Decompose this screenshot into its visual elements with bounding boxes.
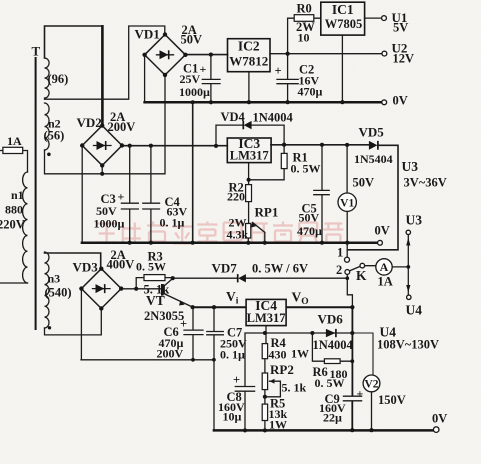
svg-text:(96): (96): [48, 72, 69, 86]
svg-text:+: +: [180, 317, 187, 331]
svg-text:VD3: VD3: [73, 260, 99, 275]
svg-text:10µ: 10µ: [223, 410, 242, 424]
svg-text:VT: VT: [146, 293, 165, 308]
svg-text:50V: 50V: [353, 176, 375, 190]
svg-text:VD4: VD4: [221, 110, 246, 124]
svg-text:A: A: [380, 260, 389, 274]
svg-text:25V: 25V: [180, 72, 201, 86]
svg-text:0V: 0V: [432, 412, 447, 426]
svg-text:n1: n1: [11, 188, 24, 202]
svg-text:+: +: [233, 373, 240, 387]
svg-text:5. 1k: 5. 1k: [282, 381, 307, 395]
svg-text:+: +: [118, 190, 125, 204]
svg-text:V1: V1: [340, 198, 354, 210]
svg-text:U3: U3: [406, 213, 423, 228]
svg-text:IC1: IC1: [332, 2, 354, 17]
svg-text:10: 10: [298, 31, 310, 45]
svg-text:4.3k: 4.3k: [227, 228, 249, 242]
svg-text:W7812: W7812: [229, 54, 268, 69]
svg-text:200V: 200V: [108, 120, 136, 134]
svg-text:220V: 220V: [0, 218, 25, 232]
svg-text:1N4004: 1N4004: [313, 338, 354, 352]
svg-text:0. 5W / 6V: 0. 5W / 6V: [252, 262, 308, 276]
svg-text:108V~130V: 108V~130V: [377, 338, 439, 352]
svg-text:n3: n3: [48, 272, 61, 286]
svg-text:0. 1µ: 0. 1µ: [220, 348, 245, 362]
svg-text:1N5404: 1N5404: [354, 152, 393, 166]
svg-text:VD5: VD5: [359, 125, 385, 140]
svg-text:1W: 1W: [269, 418, 287, 432]
svg-text:U3: U3: [402, 159, 419, 174]
svg-text:0. 5W: 0. 5W: [315, 376, 345, 390]
svg-text:(56): (56): [44, 129, 65, 143]
svg-text:0. 1µ: 0. 1µ: [160, 216, 185, 230]
svg-text:+: +: [200, 62, 207, 76]
svg-text:430: 430: [269, 348, 287, 362]
svg-text:K: K: [356, 268, 367, 283]
svg-text:2: 2: [336, 263, 342, 277]
svg-text:200V: 200V: [157, 347, 184, 361]
svg-text:VD1: VD1: [135, 27, 160, 42]
svg-text:470µ: 470µ: [297, 224, 322, 238]
svg-text:0. 5W: 0. 5W: [136, 260, 166, 274]
svg-text:1A: 1A: [378, 275, 393, 289]
svg-text:0. 5W: 0. 5W: [291, 162, 321, 176]
svg-text:12V: 12V: [393, 52, 415, 66]
svg-text:R0: R0: [297, 2, 312, 16]
svg-text:150V: 150V: [378, 393, 406, 407]
svg-text:1: 1: [337, 246, 343, 260]
svg-text:+: +: [275, 64, 282, 78]
svg-text:470µ: 470µ: [298, 85, 323, 99]
svg-text:880: 880: [5, 203, 23, 217]
svg-text:2N3055: 2N3055: [144, 309, 184, 323]
svg-text:(540): (540): [45, 286, 72, 300]
svg-text:RP1: RP1: [255, 205, 279, 220]
svg-text:1A: 1A: [7, 134, 22, 148]
svg-text:1000µ: 1000µ: [94, 217, 125, 231]
svg-text:400V: 400V: [107, 258, 135, 272]
svg-text:LM317: LM317: [247, 311, 286, 325]
svg-text:+: +: [357, 387, 364, 401]
svg-text:1W: 1W: [291, 347, 309, 361]
svg-text:50V: 50V: [299, 211, 320, 225]
svg-text:T: T: [32, 44, 41, 59]
svg-text:3V~36V: 3V~36V: [404, 176, 447, 190]
svg-text:RP2: RP2: [270, 362, 294, 377]
svg-text:5V: 5V: [393, 21, 408, 35]
svg-text:0V: 0V: [393, 94, 408, 108]
svg-text:VD7: VD7: [212, 261, 238, 276]
svg-text:22µ: 22µ: [323, 411, 342, 425]
svg-text:U4: U4: [406, 303, 423, 318]
svg-text:V2: V2: [364, 379, 378, 391]
svg-text:220: 220: [227, 190, 245, 204]
svg-text:VD2: VD2: [77, 115, 102, 130]
svg-text:0V: 0V: [375, 224, 390, 238]
svg-text:VD6: VD6: [318, 312, 344, 327]
svg-text:1000µ: 1000µ: [179, 85, 210, 99]
svg-text:W7805: W7805: [325, 17, 363, 31]
svg-text:IC2: IC2: [238, 39, 260, 54]
svg-text:LM317: LM317: [230, 149, 269, 163]
svg-text:1N4004: 1N4004: [253, 111, 294, 125]
svg-text:50V: 50V: [181, 33, 203, 47]
